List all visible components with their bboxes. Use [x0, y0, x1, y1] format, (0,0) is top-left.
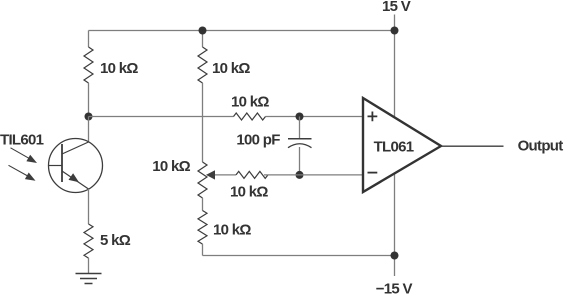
label R6 10 kOhm	[213, 222, 251, 239]
phototransistor Q1 emitter lead	[62, 171, 89, 189]
svg-text:10 kΩ: 10 kΩ	[231, 93, 269, 110]
resistor R1 10k left	[84, 47, 93, 83]
wire pot to R6	[202, 198, 204, 211]
label R2 10 kOhm	[212, 60, 250, 77]
label Output	[518, 138, 564, 155]
resistor R2 10k second column	[198, 47, 207, 83]
svg-text:10 kΩ: 10 kΩ	[230, 184, 268, 201]
label R4 10 kOhm pot	[152, 158, 190, 175]
label Q1 TIL601	[0, 132, 44, 149]
potentiometer R4 10k body	[198, 162, 207, 198]
svg-text:TIL601: TIL601	[0, 132, 44, 149]
wire bottom rail	[203, 255, 395, 257]
node D junction dot top rail	[199, 27, 207, 35]
node E junction dot 15V	[391, 27, 399, 35]
light arrow 2	[9, 165, 36, 181]
svg-text:10 kΩ: 10 kΩ	[100, 60, 138, 77]
potentiometer wiper arrow	[206, 170, 215, 179]
phototransistor Q1 circle	[49, 139, 103, 193]
resistor R7 5k	[84, 224, 93, 258]
phototransistor Q1 collector lead	[62, 142, 89, 154]
resistor R6 10k bottom	[198, 211, 207, 245]
svg-text:Output: Output	[518, 138, 564, 155]
label R3 10 kOhm	[231, 93, 269, 110]
wire R1 to node A	[88, 83, 90, 117]
node C junction dot	[296, 171, 304, 179]
label 15 V	[382, 0, 411, 15]
wire R6 to bottom rail	[202, 244, 204, 256]
phototransistor Q1 base lead	[49, 165, 63, 167]
op-amp U1 minus pin mark	[368, 172, 378, 174]
label R1 10 kOhm	[100, 60, 138, 77]
wire top rail	[89, 30, 395, 32]
node A junction dot	[85, 113, 93, 121]
svg-text:10 kΩ: 10 kΩ	[152, 158, 190, 175]
wire R2 to potentiometer	[202, 83, 204, 162]
wire 15V supply stub	[394, 15, 396, 121]
light arrow 1	[11, 148, 38, 163]
svg-text:15 V: 15 V	[382, 0, 411, 15]
label minus 15 V	[376, 281, 413, 295]
resistor R3 10k horizontal	[234, 113, 266, 120]
op-amp U1 TL061 triangle	[363, 98, 441, 192]
label R5 10 kOhm	[230, 184, 268, 201]
svg-text:10 kΩ: 10 kΩ	[212, 60, 250, 77]
wire output	[441, 145, 504, 147]
ground	[76, 274, 102, 284]
svg-text:100 pF: 100 pF	[236, 131, 280, 148]
wire capacitor to node C	[299, 147, 301, 175]
svg-text:TL061: TL061	[374, 138, 414, 155]
node B junction dot	[296, 113, 304, 121]
wire inverting line to op amp	[264, 174, 364, 176]
wire wiper to R5	[215, 174, 236, 176]
wire R7 to ground	[88, 258, 90, 274]
wire noninverting line left segment	[89, 116, 234, 118]
wire collector	[88, 117, 90, 143]
wire emitter down	[88, 189, 90, 224]
wire left column top	[88, 31, 90, 48]
node F junction dot minus 15V	[391, 252, 399, 260]
svg-text:10 kΩ: 10 kΩ	[213, 222, 251, 239]
wire top rail dot to R2	[202, 31, 204, 48]
phototransistor Q1 base bar	[61, 144, 63, 182]
wire node B to capacitor	[299, 117, 301, 139]
label C1 100 pF	[236, 131, 280, 148]
op-amp U1 plus pin mark	[368, 112, 378, 122]
label U1 TL061	[374, 138, 414, 155]
svg-text:5 kΩ: 5 kΩ	[100, 232, 131, 249]
capacitor C1 100 pF	[288, 139, 312, 148]
label R7 5 kOhm	[100, 232, 131, 249]
wire minus 15V supply	[394, 170, 396, 276]
wire noninverting line right segment	[266, 116, 365, 118]
resistor R5 10k horizontal inverting	[236, 171, 268, 178]
svg-text:−15 V: −15 V	[376, 281, 413, 295]
